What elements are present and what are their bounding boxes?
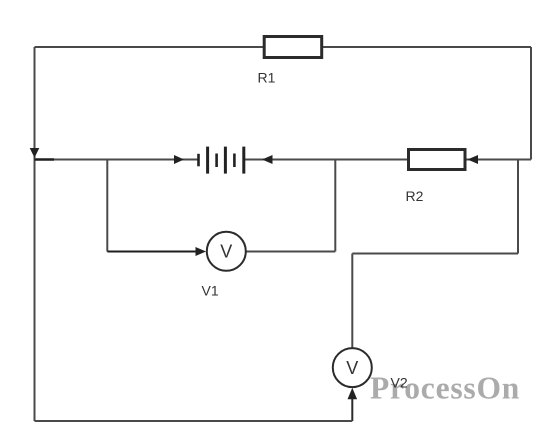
- svg-text:V2: V2: [391, 375, 408, 391]
- wire V1 branch horizontal to meter: [107, 251, 198, 253]
- voltmeter V1: [207, 232, 246, 271]
- wire V2 row horizontal: [352, 253, 518, 255]
- wire V2 top vertical: [351, 254, 353, 349]
- wire V1 branch right vertical: [334, 160, 336, 252]
- svg-text:V: V: [346, 358, 358, 378]
- arrow left into R2: [468, 155, 479, 164]
- resistor R2: [409, 150, 466, 170]
- arrow left from battery right lead: [262, 155, 273, 164]
- wire middle horizontal right segment: [244, 159, 531, 161]
- arrow right into battery: [174, 155, 184, 164]
- wire right branch vertical (middle to V2 row): [517, 160, 519, 254]
- wire middle horizontal left segment: [35, 159, 199, 161]
- wire V1 meter right horizontal: [245, 251, 335, 253]
- wire right vertical (top to middle): [530, 47, 532, 160]
- battery BT1: [199, 147, 244, 174]
- arrow up into V2: [348, 388, 358, 399]
- resistor R1: [264, 37, 322, 58]
- wire bottom horizontal: [35, 420, 353, 422]
- wire left vertical: [34, 47, 36, 421]
- arrow right into V1: [196, 247, 207, 256]
- svg-text:V: V: [220, 242, 232, 262]
- arrow down at left junction: [30, 148, 40, 158]
- wire top horizontal: [35, 46, 532, 48]
- wire V2 bottom vertical: [351, 398, 353, 421]
- wire V1 branch left vertical: [106, 160, 108, 252]
- wire dark stub at left junction: [35, 158, 55, 160]
- svg-text:V1: V1: [202, 283, 219, 299]
- svg-text:R2: R2: [406, 188, 424, 204]
- svg-text:R1: R1: [258, 70, 276, 86]
- voltmeter V2: [333, 348, 372, 387]
